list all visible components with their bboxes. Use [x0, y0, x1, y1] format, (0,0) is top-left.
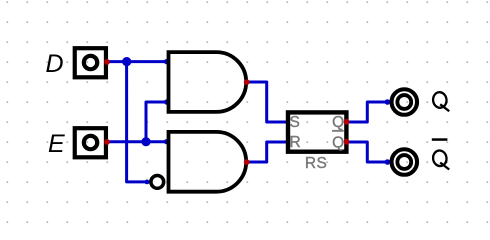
svg-text:Q: Q — [332, 114, 344, 131]
svg-text:Q: Q — [332, 134, 344, 151]
svg-text:RS: RS — [305, 155, 327, 172]
svg-text:D: D — [45, 50, 63, 78]
svg-text:E: E — [48, 130, 65, 158]
svg-text:R: R — [290, 134, 301, 151]
svg-text:S: S — [290, 114, 300, 131]
